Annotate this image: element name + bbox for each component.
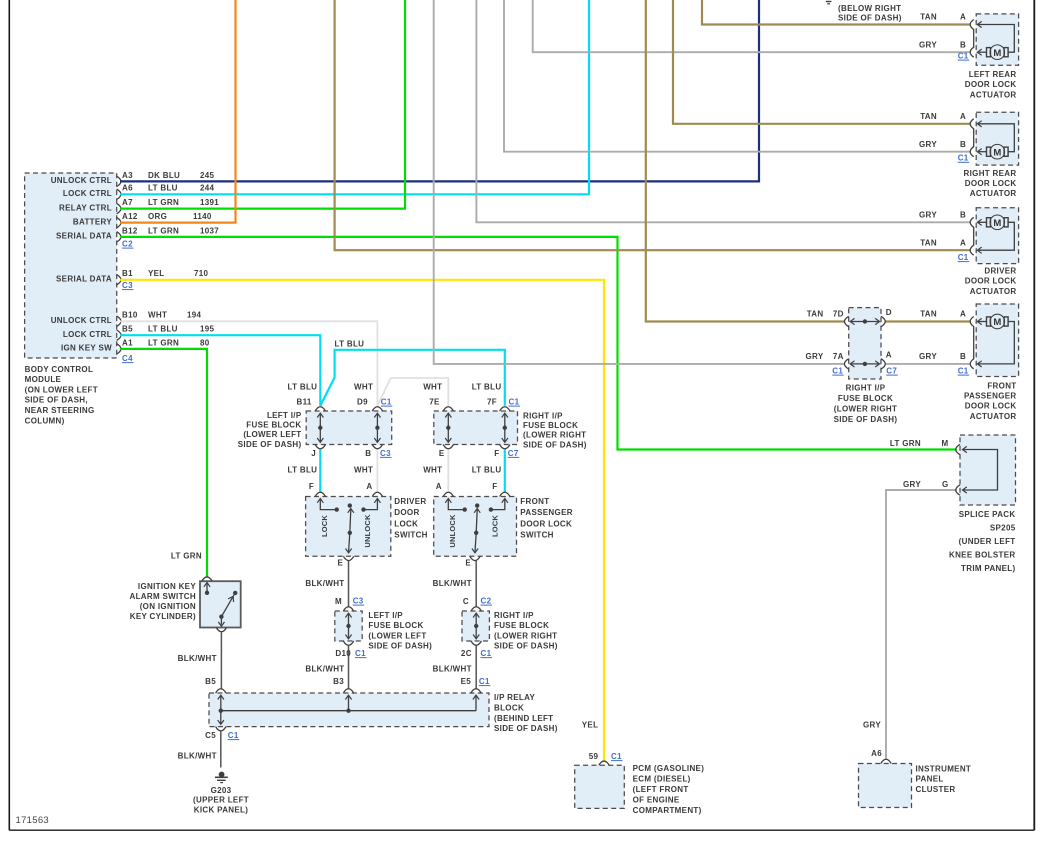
left I/P fuse pin D9-B (372, 407, 382, 411)
svg-text:UNLOCK CTRL: UNLOCK CTRL (51, 316, 112, 325)
BCM pin B5 LOCK CTRL (117, 330, 121, 340)
svg-text:SP205: SP205 (990, 524, 1016, 533)
svg-text:B: B (960, 211, 966, 220)
wire BLK/WHT passenger switch E to fuse C (475, 561, 477, 607)
svg-text:C3: C3 (353, 597, 364, 606)
wire LT BLU 244 lock ctrl (120, 0, 589, 194)
svg-text:SIDE OF DASH): SIDE OF DASH) (494, 724, 558, 733)
wire ORG 1140 battery (120, 0, 236, 223)
svg-text:TAN: TAN (920, 13, 937, 22)
svg-text:B11: B11 (297, 398, 312, 407)
svg-text:ACTUATOR: ACTUATOR (970, 90, 1017, 99)
driver door lock actuator box (976, 208, 1018, 264)
svg-text:SIDE OF DASH): SIDE OF DASH) (368, 642, 432, 651)
left I/P fuse pin B11-J (315, 407, 325, 411)
svg-text:ACTUATOR: ACTUATOR (970, 412, 1017, 421)
svg-text:171563: 171563 (16, 815, 50, 826)
ignition switch bottom pin (216, 628, 226, 632)
svg-text:E5: E5 (461, 677, 472, 686)
driver door lock actuator connector C1 brace (970, 217, 974, 255)
wire TAN fuse D to front passenger A (885, 320, 971, 322)
svg-text:RIGHT I/P: RIGHT I/P (846, 384, 886, 393)
svg-text:195: 195 (200, 325, 215, 334)
svg-text:BLK/WHT: BLK/WHT (178, 654, 217, 663)
svg-text:COMPARTMENT): COMPARTMENT) (633, 806, 702, 815)
svg-text:BLOCK: BLOCK (494, 703, 524, 712)
svg-text:7A: 7A (833, 352, 844, 361)
splice pack pin M (956, 444, 960, 454)
svg-text:B12: B12 (122, 226, 138, 235)
svg-text:(LOWER RIGHT: (LOWER RIGHT (494, 631, 557, 640)
svg-text:C7: C7 (886, 367, 897, 376)
svg-text:7D: 7D (833, 310, 844, 319)
svg-text:SIDE OF DASH,: SIDE OF DASH, (25, 396, 88, 405)
svg-text:BLK/WHT: BLK/WHT (305, 665, 344, 674)
svg-text:WHT: WHT (423, 383, 442, 392)
svg-text:A: A (960, 238, 966, 247)
svg-text:1391: 1391 (200, 198, 219, 207)
svg-text:YEL: YEL (148, 269, 165, 278)
left I/P fuse block (B11/D9) box (306, 411, 392, 445)
svg-text:C1: C1 (958, 253, 969, 262)
svg-text:LT BLU: LT BLU (148, 184, 178, 193)
ignition switch top pin (202, 577, 212, 581)
BCM pin A3 UNLOCK CTRL (117, 176, 121, 186)
svg-text:UNLOCK: UNLOCK (363, 514, 372, 548)
svg-text:(UNDER LEFT: (UNDER LEFT (959, 537, 1016, 546)
left rear door lock actuator box (976, 14, 1018, 65)
svg-text:PCM (GASOLINE): PCM (GASOLINE) (633, 764, 705, 773)
svg-text:YEL: YEL (582, 721, 599, 730)
svg-text:245: 245 (200, 171, 215, 180)
svg-text:GRY: GRY (903, 480, 921, 489)
svg-text:DOOR LOCK: DOOR LOCK (965, 179, 1017, 188)
svg-text:SWITCH: SWITCH (394, 531, 427, 540)
svg-text:TAN: TAN (920, 310, 937, 319)
svg-text:RIGHT I/P: RIGHT I/P (523, 412, 563, 421)
svg-text:DRIVER: DRIVER (394, 497, 426, 506)
svg-text:E: E (439, 449, 445, 458)
wire BLK/WHT ignition switch to relay B5 (220, 632, 222, 689)
ignition switch internal contacts (204, 583, 210, 587)
wire LT GRN 1391 relay ctrl (120, 0, 405, 209)
svg-text:KNEE BOLSTER: KNEE BOLSTER (949, 551, 1016, 560)
svg-text:DRIVER: DRIVER (984, 267, 1016, 276)
svg-text:ORG: ORG (148, 212, 167, 221)
front passenger door lock actuator connector C1 brace (970, 317, 974, 369)
svg-text:RIGHT I/P: RIGHT I/P (494, 611, 534, 620)
svg-text:(UPPER LEFT: (UPPER LEFT (193, 796, 249, 805)
svg-text:D9: D9 (357, 398, 368, 407)
svg-text:C1: C1 (509, 398, 520, 407)
svg-text:LT BLU: LT BLU (148, 325, 178, 334)
svg-text:C3: C3 (380, 449, 391, 458)
front passenger door lock switch pin E to bottom (475, 533, 476, 552)
front passenger door lock switch blade (475, 503, 479, 507)
driver door lock switch blade (348, 503, 352, 507)
svg-text:GRY: GRY (863, 721, 881, 730)
svg-text:C2: C2 (122, 240, 133, 249)
svg-text:B1: B1 (122, 269, 133, 278)
svg-text:A: A (436, 482, 442, 491)
wire WHT E to A (447, 449, 449, 492)
svg-text:C1: C1 (481, 649, 492, 658)
svg-text:SIDE OF DASH): SIDE OF DASH) (238, 440, 302, 449)
svg-text:B: B (365, 449, 371, 458)
svg-text:A7: A7 (122, 198, 133, 207)
svg-text:7F: 7F (487, 398, 497, 407)
svg-text:DOOR LOCK: DOOR LOCK (520, 519, 572, 528)
svg-text:GRY: GRY (919, 140, 937, 149)
BCM pin B12 SERIAL DATA (117, 232, 121, 242)
svg-text:WHT: WHT (423, 466, 442, 475)
svg-text:FUSE BLOCK: FUSE BLOCK (523, 421, 578, 430)
front passenger door lock actuator motor M (987, 317, 991, 326)
svg-text:TRIM PANEL): TRIM PANEL) (961, 564, 1015, 573)
wire WHT B to A (376, 449, 378, 492)
svg-text:TAN: TAN (807, 310, 824, 319)
svg-text:B5: B5 (122, 325, 133, 334)
svg-text:80: 80 (200, 338, 210, 347)
BCM pin A7 RELAY CTRL (117, 203, 121, 213)
I/P relay block box (209, 693, 489, 727)
svg-text:ECM (DIESEL): ECM (DIESEL) (633, 775, 691, 784)
wire BLK/WHT driver switch E to fuse M (348, 561, 350, 607)
svg-text:LEFT I/P: LEFT I/P (267, 411, 302, 420)
svg-text:B3: B3 (333, 677, 344, 686)
wire LT GRN 80 ign key sw (120, 349, 207, 577)
svg-text:DOOR LOCK: DOOR LOCK (965, 402, 1017, 411)
svg-text:(LOWER LEFT: (LOWER LEFT (243, 430, 301, 439)
svg-text:J: J (311, 449, 316, 458)
splice pack SP205 box (960, 435, 1016, 505)
svg-text:GRY: GRY (806, 352, 824, 361)
ground (below right side of dash) (826, 1, 832, 3)
svg-text:UNLOCK CTRL: UNLOCK CTRL (51, 176, 112, 185)
svg-text:FRONT: FRONT (520, 497, 549, 506)
svg-text:ACTUATOR: ACTUATOR (970, 287, 1017, 296)
splice pack pin G (956, 485, 960, 495)
svg-text:2C: 2C (461, 649, 472, 658)
left rear door lock actuator motor M (987, 48, 991, 57)
right I/P fuse pin 7E-E (443, 407, 453, 411)
svg-text:M: M (993, 218, 1001, 229)
svg-text:E: E (338, 559, 344, 568)
svg-text:LT GRN: LT GRN (148, 198, 179, 207)
svg-text:FUSE BLOCK: FUSE BLOCK (494, 621, 549, 630)
instrument panel cluster box (859, 764, 912, 808)
wire TAN to fuse 7D (646, 0, 845, 322)
svg-text:SIDE OF DASH): SIDE OF DASH) (834, 415, 898, 424)
svg-text:LT BLU: LT BLU (288, 466, 318, 475)
wire LT BLU 195 branch to 7F (320, 350, 505, 406)
PCM/ECM box (575, 765, 625, 808)
svg-text:B: B (960, 140, 966, 149)
svg-text:SPLICE PACK: SPLICE PACK (959, 510, 1016, 519)
svg-text:LOCK CTRL: LOCK CTRL (63, 330, 112, 339)
svg-text:SIDE OF DASH): SIDE OF DASH) (523, 440, 587, 449)
splice pack internal wire (963, 450, 998, 491)
svg-text:F: F (309, 482, 314, 491)
svg-text:BLK/WHT: BLK/WHT (178, 752, 217, 761)
svg-text:1037: 1037 (200, 226, 219, 235)
driver door lock actuator internal wires (977, 219, 981, 225)
svg-text:SIDE OF DASH): SIDE OF DASH) (838, 14, 902, 23)
svg-text:F: F (494, 449, 499, 458)
svg-text:LT GRN: LT GRN (890, 439, 921, 448)
svg-text:LOCK: LOCK (320, 515, 329, 537)
svg-text:A: A (886, 350, 892, 359)
svg-text:KEY CYLINDER): KEY CYLINDER) (130, 612, 196, 621)
svg-text:LEFT I/P: LEFT I/P (368, 611, 403, 620)
svg-text:DK BLU: DK BLU (148, 171, 180, 180)
svg-text:D: D (886, 308, 892, 317)
svg-text:LOCK: LOCK (394, 519, 418, 528)
svg-text:F: F (492, 482, 497, 491)
relay block pins B5 B3 E5 C5 (216, 689, 226, 693)
svg-text:C1: C1 (958, 154, 969, 163)
wire TAN to left rear actuator A (702, 0, 971, 25)
driver door lock switch box (306, 497, 391, 557)
svg-text:A6: A6 (122, 184, 133, 193)
right I/P fuse block (7E/7F) box (434, 411, 518, 445)
svg-text:(ON IGNITION: (ON IGNITION (140, 602, 196, 611)
right I/P fuse pin C-2C (471, 607, 481, 611)
BCM pin A12 BATTERY (117, 217, 121, 227)
wire LT GRN 1037 serial data to SP205 (120, 237, 957, 450)
left rear door lock actuator connector C1 brace (970, 20, 974, 58)
svg-text:LOCK: LOCK (490, 515, 499, 537)
svg-text:SERIAL DATA: SERIAL DATA (56, 232, 112, 241)
svg-text:SWITCH: SWITCH (520, 531, 553, 540)
BCM pin B1 SERIAL DATA (117, 275, 121, 285)
svg-text:LOCK CTRL: LOCK CTRL (63, 189, 112, 198)
wire LT BLU 195 lock to B11 (120, 335, 320, 406)
svg-text:C4: C4 (122, 354, 133, 363)
svg-text:IGN KEY SW: IGN KEY SW (61, 344, 112, 353)
svg-text:FUSE BLOCK: FUSE BLOCK (368, 621, 423, 630)
wire BLK/WHT fuse 2C to relay E5 (475, 645, 477, 688)
svg-text:LT GRN: LT GRN (148, 338, 179, 347)
svg-text:A12: A12 (122, 212, 138, 221)
svg-text:(LEFT FRONT: (LEFT FRONT (633, 785, 689, 794)
svg-text:C5: C5 (205, 731, 216, 740)
svg-text:(BELOW RIGHT: (BELOW RIGHT (838, 4, 901, 13)
svg-text:LT BLU: LT BLU (288, 383, 318, 392)
wire TAN to driver actuator A (335, 0, 971, 250)
driver door lock actuator motor M (987, 218, 991, 227)
front passenger door lock switch pin A (left) (443, 492, 453, 496)
svg-text:ACTUATOR: ACTUATOR (970, 189, 1017, 198)
ignition switch blade (221, 595, 234, 617)
svg-text:LT GRN: LT GRN (171, 552, 202, 561)
svg-text:TAN: TAN (920, 238, 937, 247)
relay block internal bus (221, 710, 476, 712)
wire LT BLU J to F (319, 449, 321, 492)
driver door lock switch pin (right) (372, 492, 382, 496)
svg-text:TAN: TAN (920, 112, 937, 121)
svg-text:7E: 7E (429, 398, 440, 407)
svg-text:MODULE: MODULE (25, 375, 62, 384)
svg-text:KICK PANEL): KICK PANEL) (194, 805, 248, 814)
svg-text:59: 59 (589, 752, 599, 761)
svg-text:1140: 1140 (193, 212, 212, 221)
svg-text:M: M (942, 439, 949, 448)
svg-text:BODY CONTROL: BODY CONTROL (25, 365, 94, 374)
driver door lock switch pin E to bottom (349, 533, 350, 552)
PCM pin 59 (599, 761, 609, 765)
svg-text:C1: C1 (958, 367, 969, 376)
svg-text:C7: C7 (508, 449, 519, 458)
wire GRY to right rear actuator B (504, 0, 971, 152)
svg-text:DOOR LOCK: DOOR LOCK (965, 80, 1017, 89)
svg-text:C2: C2 (481, 597, 492, 606)
left rear door lock actuator internal wires (977, 49, 981, 55)
svg-text:A: A (960, 310, 966, 319)
BCM pin B10 UNLOCK CTRL (117, 316, 121, 326)
svg-text:M: M (993, 48, 1001, 59)
svg-text:D10: D10 (335, 649, 351, 658)
svg-text:G203: G203 (211, 786, 232, 795)
svg-text:710: 710 (194, 269, 209, 278)
svg-text:FUSE BLOCK: FUSE BLOCK (838, 394, 893, 403)
front passenger door lock switch box (434, 497, 517, 557)
svg-text:WHT: WHT (354, 383, 373, 392)
right rear door lock actuator internal wires (977, 149, 981, 155)
wire GRY fuse A to front passenger B (885, 363, 971, 365)
svg-text:I/P RELAY: I/P RELAY (494, 693, 535, 702)
svg-text:C1: C1 (381, 398, 392, 407)
svg-text:LT BLU: LT BLU (335, 340, 365, 349)
svg-text:194: 194 (187, 311, 202, 320)
svg-text:B10: B10 (122, 311, 138, 320)
svg-text:C: C (463, 597, 469, 606)
svg-text:LT GRN: LT GRN (148, 226, 179, 235)
wire GRY to driver actuator B (476, 0, 970, 222)
svg-text:OF ENGINE: OF ENGINE (633, 796, 680, 805)
right I/P fuse pin 7F-F (500, 407, 510, 411)
svg-text:IGNITION KEY: IGNITION KEY (138, 582, 196, 591)
wire DK BLU 245 unlock ctrl (120, 0, 759, 181)
svg-text:C3: C3 (122, 281, 133, 290)
svg-text:PASSENGER: PASSENGER (520, 508, 573, 517)
svg-text:244: 244 (200, 184, 215, 193)
svg-text:C1: C1 (832, 367, 843, 376)
svg-text:INSTRUMENT: INSTRUMENT (916, 764, 972, 773)
svg-text:(LOWER RIGHT: (LOWER RIGHT (834, 405, 897, 414)
svg-text:COLUMN): COLUMN) (25, 416, 65, 425)
svg-text:(LOWER LEFT: (LOWER LEFT (368, 631, 426, 640)
svg-text:(BEHIND LEFT: (BEHIND LEFT (494, 714, 553, 723)
svg-text:B5: B5 (205, 677, 216, 686)
svg-text:NEAR STEERING: NEAR STEERING (25, 406, 95, 415)
svg-text:UNLOCK: UNLOCK (448, 514, 457, 548)
wire LT BLU F to F (504, 449, 506, 492)
ignition key alarm switch box (200, 581, 241, 627)
svg-text:A: A (960, 112, 966, 121)
svg-text:M: M (335, 597, 342, 606)
svg-text:DOOR: DOOR (394, 508, 419, 517)
svg-text:WHT: WHT (354, 466, 373, 475)
svg-text:LT BLU: LT BLU (472, 383, 502, 392)
wire GRY to left rear actuator B (533, 0, 971, 52)
front passenger door lock actuator box (976, 304, 1018, 377)
svg-text:C1: C1 (355, 649, 366, 658)
svg-text:B: B (960, 40, 966, 49)
svg-text:CLUSTER: CLUSTER (916, 785, 956, 794)
svg-text:DOOR LOCK: DOOR LOCK (965, 277, 1017, 286)
svg-text:SERIAL DATA: SERIAL DATA (56, 275, 112, 284)
svg-text:A: A (960, 13, 966, 22)
svg-text:A: A (366, 482, 372, 491)
svg-text:C1: C1 (611, 752, 622, 761)
svg-text:GRY: GRY (919, 211, 937, 220)
svg-text:A3: A3 (122, 171, 133, 180)
wire WHT 194 unlock to D9 (120, 321, 377, 406)
wire GRY splice to instrument cluster (886, 490, 957, 760)
left I/P fuse block (M/D10) box (335, 611, 362, 641)
svg-text:M: M (993, 317, 1001, 328)
ground G203 (219, 772, 225, 778)
svg-text:BATTERY: BATTERY (73, 217, 112, 226)
right rear door lock actuator box (976, 112, 1018, 165)
wire TAN to right rear actuator A (673, 0, 971, 124)
driver door lock switch pin F (left) (315, 492, 325, 496)
svg-text:LEFT REAR: LEFT REAR (969, 70, 1017, 79)
wire BLK/WHT relay C5 to G203 (220, 731, 222, 768)
page border frame left (8, 0, 10, 830)
left I/P fuse pin M-D10 (343, 607, 353, 611)
BCM pin A1 IGN KEY SW (117, 344, 121, 354)
right I/P fuse block (7D/7A) box (849, 308, 881, 379)
svg-text:B: B (960, 352, 966, 361)
svg-text:BLK/WHT: BLK/WHT (305, 579, 344, 588)
front passenger door lock switch pin (right) (500, 492, 510, 496)
svg-text:C1: C1 (228, 731, 239, 740)
wire YEL 710 serial data to PCM (120, 280, 604, 761)
wire WHT 194 branch to 7E (377, 378, 448, 406)
svg-text:ALARM SWITCH: ALARM SWITCH (130, 592, 197, 601)
svg-text:C1: C1 (958, 52, 969, 61)
svg-text:FRONT: FRONT (987, 381, 1016, 390)
svg-text:(ON LOWER LEFT: (ON LOWER LEFT (25, 385, 98, 394)
front passenger door lock actuator internal wires (977, 318, 981, 324)
right rear door lock actuator motor M (987, 147, 991, 156)
svg-text:SIDE OF DASH): SIDE OF DASH) (494, 642, 558, 651)
svg-text:GRY: GRY (919, 40, 937, 49)
svg-text:A6: A6 (871, 749, 882, 758)
svg-text:BLK/WHT: BLK/WHT (433, 665, 472, 674)
svg-text:LT BLU: LT BLU (472, 466, 502, 475)
svg-text:G: G (942, 480, 949, 489)
cluster pin A6 (881, 759, 891, 763)
wire BLK/WHT fuse D10 to relay B3 (348, 645, 350, 688)
wire GRY to fuse 7A (434, 0, 845, 364)
page border frame right (1033, 0, 1035, 830)
svg-text:(LOWER RIGHT: (LOWER RIGHT (523, 431, 586, 440)
svg-text:WHT: WHT (148, 311, 167, 320)
fuse block row 7A-A (844, 359, 848, 369)
BCM pin A6 LOCK CTRL (117, 189, 121, 199)
svg-text:PANEL: PANEL (916, 775, 944, 784)
svg-text:GRY: GRY (919, 352, 937, 361)
right rear door lock actuator connector C1 brace (970, 119, 974, 157)
right I/P fuse block (C/2C) box (462, 611, 489, 641)
svg-text:E: E (465, 559, 471, 568)
page border frame bottom (9, 829, 1034, 831)
svg-text:M: M (993, 147, 1001, 158)
svg-text:RIGHT REAR: RIGHT REAR (964, 169, 1017, 178)
